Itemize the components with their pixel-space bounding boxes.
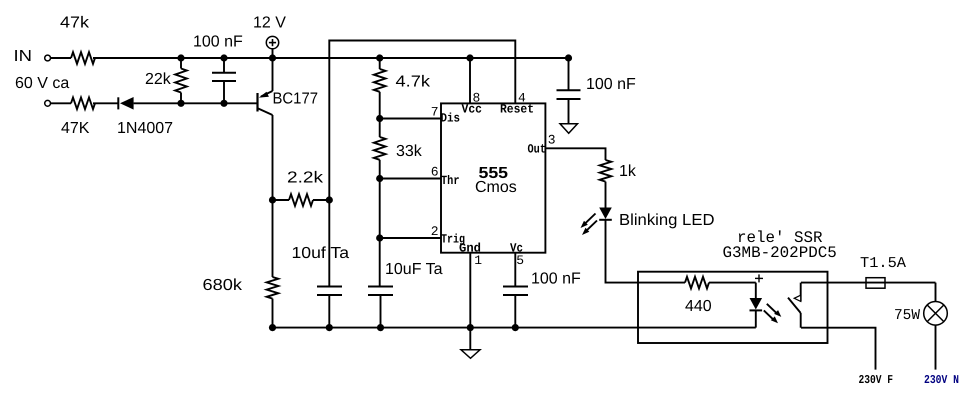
svg-text:33k: 33k [396, 143, 423, 160]
switch S1 relay contact [788, 283, 801, 328]
wire Dis row [380, 118, 441, 120]
wire [51, 102, 71, 104]
node IN terminal [45, 55, 51, 61]
transistor Q1 BC177 [258, 58, 273, 200]
svg-text:Dis: Dis [441, 112, 461, 126]
svg-text:440: 440 [685, 298, 712, 315]
resistor R2 47K [71, 98, 95, 110]
wire Out pin3 [545, 148, 605, 160]
node dot 2.2k left [269, 196, 276, 203]
ground [560, 124, 578, 134]
wire [379, 238, 381, 287]
svg-text:1: 1 [474, 253, 482, 268]
svg-text:Reset: Reset [500, 103, 534, 117]
node dot row1 22k [177, 54, 184, 61]
resistor R9 440 [685, 277, 709, 289]
svg-text:4.7k: 4.7k [396, 74, 432, 91]
svg-text:100 nF: 100 nF [193, 34, 243, 51]
svg-text:10uF Ta: 10uF Ta [385, 261, 443, 278]
resistor R4 2.2k [273, 194, 330, 206]
node dot row2 C1 [220, 100, 227, 107]
wire [709, 282, 756, 284]
node dot row1 C1 [220, 54, 227, 61]
wire Vc pin5 [514, 253, 516, 287]
node dot rail 680k [269, 324, 276, 331]
wire row1 [93, 57, 569, 59]
capacitor C2 10uf Ta [317, 287, 342, 328]
wire [605, 182, 607, 208]
svg-text:2.2k: 2.2k [287, 170, 324, 187]
svg-text:8: 8 [473, 90, 481, 105]
svg-text:47K: 47K [61, 120, 90, 137]
LED D3 SSR internal [750, 283, 782, 328]
resistor R8 1k [600, 160, 612, 182]
wire base row [134, 102, 258, 104]
wire [93, 102, 118, 104]
power +12V source symbol [266, 36, 278, 58]
node dot row2 22k [177, 100, 184, 107]
node dot Dis [376, 115, 383, 122]
svg-text:IN: IN [14, 48, 33, 65]
node dot Thr [376, 175, 383, 182]
node dot Trig [376, 234, 383, 241]
resistor R5 680k [267, 200, 279, 328]
wire Gnd pin1 [469, 253, 471, 328]
svg-text:Cmos: Cmos [475, 179, 517, 196]
wire Vcc pin8 [469, 58, 471, 103]
diode D1 1N4007 [118, 97, 133, 110]
node plus mark [755, 274, 763, 282]
wire [379, 179, 381, 239]
resistor R3 22k [175, 58, 187, 103]
svg-text:60 V ca: 60 V ca [15, 75, 69, 92]
ground [461, 328, 480, 359]
svg-text:3: 3 [548, 133, 556, 148]
svg-text:T1.5A: T1.5A [860, 255, 906, 272]
svg-text:Blinking LED: Blinking LED [619, 212, 715, 229]
node 60V terminal [45, 100, 51, 106]
svg-text:100 nF: 100 nF [586, 76, 636, 93]
svg-text:230V N: 230V N [924, 373, 959, 387]
svg-text:6: 6 [431, 165, 439, 180]
node dot row1 4.7k [376, 54, 383, 61]
capacitor C4 100nF [503, 287, 528, 328]
svg-text:2: 2 [431, 224, 439, 239]
svg-text:G3MB-202PDC5: G3MB-202PDC5 [723, 244, 837, 262]
svg-text:1N4007: 1N4007 [117, 120, 173, 137]
fuse F1 T1.5A [866, 278, 885, 289]
node dot rail C4 [512, 324, 519, 331]
wire [51, 57, 71, 59]
svg-text:680k: 680k [203, 277, 244, 294]
svg-text:47k: 47k [60, 15, 90, 32]
relay U2 SSR box [638, 272, 828, 343]
svg-text:230V F: 230V F [859, 373, 894, 387]
wire LED to SSR [606, 220, 686, 283]
svg-text:1k: 1k [619, 163, 637, 180]
svg-text:12 V: 12 V [253, 15, 286, 32]
wire Thr row [380, 178, 441, 180]
node dot rail C3 [377, 324, 384, 331]
wire Trig row [380, 237, 441, 239]
resistor R6 4.7k [374, 58, 386, 119]
svg-text:10uf Ta: 10uf Ta [292, 245, 350, 262]
svg-text:7: 7 [431, 105, 439, 120]
capacitor C1 100nF [212, 58, 236, 103]
LED D2 blinking [581, 208, 612, 236]
wire [935, 283, 937, 302]
node dot rail C2 [326, 324, 333, 331]
svg-text:5: 5 [516, 253, 524, 268]
wire switch to fuse [801, 282, 936, 284]
node dot row1 C5 [565, 54, 572, 61]
svg-text:75W: 75W [894, 307, 920, 324]
svg-text:Thr: Thr [441, 174, 460, 188]
wire to 230V F [801, 328, 876, 370]
node dot row1 12V [269, 54, 276, 61]
node dot rail Gnd [467, 324, 474, 331]
lamp L1 75W [924, 302, 948, 326]
capacitor C5 100nF top-right [557, 58, 581, 124]
capacitor C3 10uF Ta [368, 287, 393, 328]
svg-text:22k: 22k [145, 71, 172, 88]
svg-text:BC177: BC177 [273, 91, 319, 108]
node dot row1 Vcc [466, 54, 473, 61]
svg-text:100 nF: 100 nF [531, 271, 581, 288]
svg-text:Out: Out [528, 143, 547, 157]
wire to 230V N [935, 325, 937, 370]
op-amp U1 555 IC body [441, 103, 545, 252]
wire bottom rail [273, 327, 756, 329]
wire reset loop [329, 41, 515, 201]
svg-text:4: 4 [518, 90, 526, 105]
resistor R1 47k [71, 52, 95, 64]
wire [328, 200, 330, 287]
resistor R7 33k [374, 119, 386, 179]
node dot 2.2k right [326, 196, 333, 203]
